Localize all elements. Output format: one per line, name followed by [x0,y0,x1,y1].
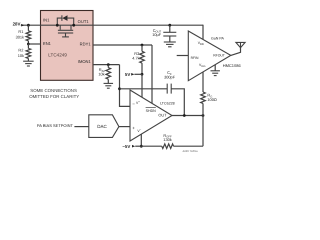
wire VGG feed down [202,116,204,147]
resistor RIM 10k [107,65,109,68]
svg-text:IN1: IN1 [43,18,50,23]
wire setpoint to DAC [74,126,88,128]
svg-text:R2: R2 [18,47,23,52]
svg-text:DAC: DAC [97,124,107,129]
resistor R2 10k [26,48,31,58]
wire V- supply pin [140,134,142,146]
svg-text:PA BIAS SETPOINT: PA BIAS SETPOINT [37,123,74,128]
wire CF right [171,89,184,116]
svg-text:4.7k: 4.7k [132,55,139,60]
wire RFOUT to antenna [231,48,241,56]
wire CF left [120,88,168,90]
ground COUT [164,42,176,47]
svg-text:301k: 301k [16,35,24,40]
node feedback tap [118,87,121,90]
node R1 tap [27,24,30,27]
svg-text:10k: 10k [98,71,104,76]
wire RFIN stub [177,55,189,57]
svg-text:EN1: EN1 [43,41,52,46]
ground RIM [104,83,114,88]
svg-text:100Ω: 100Ω [207,97,216,102]
svg-text:OMITTED FOR CLARITY: OMITTED FOR CLARITY [29,94,79,99]
DAC block [89,115,119,138]
svg-text:−: − [132,101,135,106]
svg-text:SHDN: SHDN [146,109,157,113]
wire VDD drop [202,25,204,40]
node EN1 divider [27,43,30,46]
svg-text:130k: 130k [163,137,171,142]
PA ground stub [214,65,216,71]
svg-text:RFOUT: RFOUT [213,54,225,58]
svg-text:OUT: OUT [158,112,167,117]
svg-text:GaN PA: GaN PA [211,37,225,41]
node diode left [56,24,59,27]
arrowhead -5V [132,145,135,148]
svg-text:IMON1: IMON1 [78,59,92,64]
svg-text:+: + [132,125,135,130]
svg-text:10µF: 10µF [152,32,162,37]
resistor RGFF 130k [162,144,174,149]
svg-text:−5V: −5V [122,144,130,149]
wire RDY1 to SHDN [93,44,152,46]
wire SHDN drop [151,45,153,104]
node RG junction [202,114,205,117]
svg-text:10k: 10k [18,53,24,58]
svg-text:LTC4249: LTC4249 [48,52,67,57]
wire IMON to inverting input [120,65,131,107]
node V- to -5V [140,145,143,148]
svg-text:300pF: 300pF [164,74,176,79]
antenna [236,42,245,47]
node CF to out [183,114,186,117]
wire IMON1 [93,64,120,66]
svg-text:OUT1: OUT1 [78,19,90,24]
wire plus input from DAC [119,126,130,128]
resistor RG 100 Ohm [202,72,204,92]
capacitor COUT 10uF [169,25,171,32]
IC U1 LTC4249 block [41,11,94,81]
amplifier U3 GaN PA HMC1086 [188,31,231,81]
svg-text:R1: R1 [18,29,23,34]
ground R2 [23,61,34,66]
node COUT tap [168,24,171,27]
svg-text:RDY1: RDY1 [80,42,92,47]
wire op-amp output [172,115,203,117]
node RIM tap [107,63,110,66]
wire V+ supply [141,74,143,97]
op-amp U2 LTC6228 [130,90,172,141]
arrowhead 28V [21,24,24,27]
svg-text:RFIN: RFIN [191,56,199,60]
capacitor CF 300pF [166,84,168,94]
wire bottom -5V rail [141,145,162,147]
node diode right [72,24,75,27]
wire 28V input / top rail OUT1 to VDD corner [21,24,203,26]
resistor R3 4.7k pullup [141,45,143,51]
svg-text:SOME CONNECTIONS: SOME CONNECTIONS [30,88,77,93]
body diode D1 [57,15,73,25]
svg-text:5V: 5V [125,72,130,77]
svg-text:28V: 28V [13,22,21,27]
svg-text:LTC6228: LTC6228 [160,102,175,106]
node R3 tap [141,44,144,47]
transistor M1 pass FET [58,25,73,37]
node 5V [141,73,144,76]
arrowhead 5V [131,73,134,76]
wire EN1 [28,43,40,45]
svg-text:4249 TA01a: 4249 TA01a [183,149,198,153]
resistor R1 301k [27,25,29,31]
ground PA [211,71,220,76]
svg-text:HMC1086: HMC1086 [223,63,242,68]
